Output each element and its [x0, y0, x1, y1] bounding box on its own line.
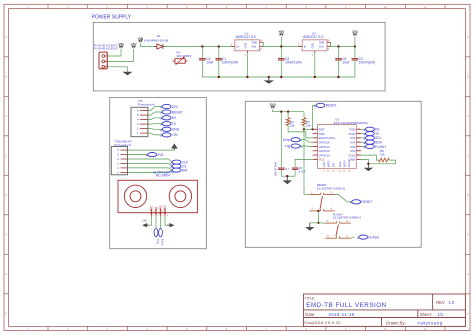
svg-text:1.0: 1.0 — [449, 300, 455, 305]
svg-text:CS0: CS0 — [322, 162, 326, 168]
svg-text:C: C — [5, 114, 7, 118]
wire U1 out rail — [263, 46, 302, 48]
svg-text:Sheet:: Sheet: — [420, 312, 432, 317]
wire S2 pin4 to FLASH flag — [351, 237, 355, 238]
wire U2 out rail — [331, 46, 355, 48]
svg-text:1N4148WS-E3-08: 1N4148WS-E3-08 — [144, 39, 169, 43]
svg-text:10: 10 — [384, 327, 388, 331]
switch S1 RESET — [309, 191, 334, 211]
svg-text:K2-1187SP-C4SB-01: K2-1187SP-C4SB-01 — [317, 187, 346, 191]
svg-text:100nF(104): 100nF(104) — [359, 61, 375, 65]
switch S2 FLASH labels — [333, 213, 362, 220]
junction ground rail x218.8 — [218, 76, 220, 78]
wire IO5 to SCL — [361, 137, 365, 139]
wire HC-SR04 Echo — [160, 217, 162, 229]
svg-text:F: F — [467, 233, 469, 237]
wire TXD to RX — [361, 128, 365, 130]
net flag RESET at S1 — [350, 200, 372, 204]
net flag RX at ESP — [364, 127, 381, 131]
svg-text:4.7uF: 4.7uF — [299, 170, 306, 174]
svg-text:10: 10 — [384, 5, 388, 9]
svg-text:3V3: 3V3 — [352, 30, 358, 34]
svg-text:10k: 10k — [306, 123, 311, 127]
junction 3V3/C7 wire — [280, 111, 282, 113]
svg-text:VIN: VIN — [118, 43, 124, 47]
capacitor C7 — [278, 168, 284, 176]
svg-text:AMS1117-5.0: AMS1117-5.0 — [236, 35, 256, 39]
svg-text:F: F — [5, 233, 7, 237]
wire HC-SR04 GND — [165, 217, 170, 226]
ground at buttons — [305, 223, 315, 231]
junction R3/RST — [303, 128, 305, 130]
svg-text:Echo: Echo — [283, 138, 291, 142]
svg-text:IO9: IO9 — [331, 162, 335, 167]
power flag 3V3 at ESP — [270, 103, 276, 108]
title block Date label — [305, 312, 354, 317]
wire 7SEG pin5 to 3V3 — [128, 154, 148, 156]
wire junction to gnd stem — [310, 222, 319, 224]
wire U1 GND down — [246, 53, 248, 77]
svg-text:Out: Out — [251, 45, 256, 49]
junction ground rail x268.8 — [268, 76, 270, 78]
title block EasyEDA version — [304, 320, 341, 325]
net flag Echo at ESP — [283, 138, 302, 142]
svg-text:nakpisang: nakpisang — [418, 321, 443, 326]
junction at C4 top — [201, 45, 203, 47]
wire HC-SR04 Trig — [155, 217, 157, 229]
svg-text:Echo: Echo — [161, 239, 165, 246]
svg-text:GND: GND — [172, 128, 180, 132]
power flag 3V3 at rail — [352, 30, 358, 35]
resistor R3 — [302, 112, 306, 195]
capacitor C3 — [352, 47, 359, 78]
wire 7SEG pin1 gnd row — [128, 170, 172, 172]
svg-text:IO10: IO10 — [338, 161, 342, 167]
wire +5V stem — [280, 36, 282, 46]
wire D1 to U1 — [163, 46, 235, 48]
wire S1 pin1 to RST net — [304, 194, 309, 196]
svg-text:Drawn By:: Drawn By: — [386, 321, 405, 326]
power flag +5V at P1 — [131, 43, 138, 48]
svg-text:10k: 10k — [290, 123, 295, 127]
svg-text:11: 11 — [424, 5, 427, 9]
net flag GND (TTL) — [161, 127, 180, 131]
title block Sheet label — [420, 312, 444, 317]
junction 3V3/R4 — [287, 111, 289, 113]
wire ESP GND down — [361, 159, 368, 163]
svg-text:PINHEADER2: PINHEADER2 — [94, 47, 118, 51]
svg-text:C: C — [467, 114, 469, 118]
svg-text:G: G — [467, 272, 469, 276]
wire IO15 to R5 — [361, 155, 378, 160]
title block — [304, 294, 466, 326]
junction at +5V/C2 — [280, 45, 282, 47]
ultrasonic module HC-SR04 — [118, 180, 197, 217]
ground at P1 pin3 — [123, 71, 133, 75]
regulator U1 AMS1117-5.0 — [230, 32, 263, 57]
IC U3 ESP-12F — [313, 125, 362, 173]
wire S1 pin3 down — [317, 211, 319, 223]
connectors/ultrasonic section box — [110, 98, 207, 249]
svg-text:30V 180PF: 30V 180PF — [176, 54, 191, 58]
switch S1 RESET labels — [317, 183, 346, 190]
wire S1 pin2 to RESET flag — [335, 195, 352, 202]
svg-text:VCC: VCC — [150, 205, 154, 212]
capacitor C6 labels — [299, 166, 306, 174]
junction ESP gnd — [367, 163, 369, 165]
junction at C5 top — [337, 45, 339, 47]
svg-text:3V3: 3V3 — [172, 105, 178, 109]
diode D1 labels — [144, 34, 169, 43]
wire P1 pin2 to +5V — [107, 49, 133, 62]
power flag VIN at P1 — [118, 43, 124, 48]
wire 3V3 down to C7 — [280, 112, 282, 167]
net flag FLASH at S2 — [357, 235, 379, 239]
capacitor C7 value vertical — [274, 162, 278, 177]
wire TTL pin2 to GND — [148, 128, 162, 131]
svg-text:+5V: +5V — [172, 133, 179, 137]
title block REV label — [436, 300, 455, 305]
svg-text:FLASH: FLASH — [375, 145, 386, 149]
net flag RESET at ESP — [315, 103, 337, 107]
wire 3V3 stem — [354, 36, 356, 46]
power ground rail wire — [202, 76, 355, 78]
svg-text:DIN: DIN — [182, 168, 188, 172]
capacitor C4 labels — [206, 57, 213, 65]
junction ground rail x338.5 — [337, 76, 339, 78]
power flag VIN at rail — [138, 37, 144, 42]
capacitor C6 — [292, 168, 298, 176]
net flag Trig (vertical) — [154, 228, 160, 244]
svg-text:Trig: Trig — [156, 239, 160, 244]
svg-text:Trig: Trig — [285, 144, 291, 148]
svg-text:HC-SR04: HC-SR04 — [156, 174, 170, 178]
ESP8266 section box — [245, 101, 421, 247]
wire Trig to GPIO14 — [300, 145, 312, 148]
junction ground rail x281.3 — [280, 76, 282, 78]
connector J1 TTL labels — [138, 99, 155, 107]
net flag CLK — [171, 160, 189, 164]
svg-text:D: D — [5, 154, 7, 158]
svg-text:TITLE:: TITLE: — [305, 296, 316, 300]
regulator U2 AMS1117-3.3 — [298, 32, 331, 57]
capacitor C1 — [216, 47, 223, 78]
svg-text:3V3: 3V3 — [270, 103, 276, 107]
capacitor C4 — [199, 47, 206, 78]
net flag FLASH at ESP — [364, 144, 386, 148]
svg-text:H: H — [5, 312, 7, 316]
connector P1 labels — [94, 43, 118, 50]
wire P1 pin3 to ground — [107, 67, 127, 71]
resistor R3 labels — [306, 120, 311, 127]
svg-text:H: H — [467, 312, 469, 316]
svg-text:D: D — [467, 154, 469, 158]
net flag +5V (TTL) — [161, 133, 179, 137]
svg-text:MISO: MISO — [327, 161, 331, 168]
svg-text:REV: REV — [436, 300, 445, 305]
svg-text:EasyEDA V5.9.20: EasyEDA V5.9.20 — [304, 320, 341, 325]
varistor RV labels — [176, 51, 191, 58]
junction C7C6 gnd — [286, 175, 288, 177]
svg-text:RX: RX — [172, 116, 177, 120]
svg-text:B: B — [467, 75, 469, 79]
wire U2 GND down — [314, 53, 316, 77]
svg-text:100nF(104): 100nF(104) — [274, 162, 278, 177]
svg-text:E: E — [5, 193, 7, 197]
svg-text:Date:: Date: — [305, 312, 315, 317]
junction buttons gnd — [317, 222, 319, 224]
junction at 3V3/C3 — [354, 45, 356, 47]
diode D1 — [154, 44, 166, 49]
varistor RV — [172, 57, 188, 65]
svg-text:+5V: +5V — [278, 30, 285, 34]
svg-text:D1: D1 — [157, 34, 161, 38]
title block Drawn By — [386, 321, 443, 326]
switch S2 FLASH — [325, 220, 350, 238]
POWER SUPPLY section title — [92, 14, 132, 20]
capacitor C1 labels — [222, 57, 238, 65]
svg-text:Out: Out — [319, 45, 324, 49]
net flag RX (TTL) — [161, 116, 178, 120]
wire TTL pin4 to RX — [148, 118, 162, 120]
wire TTL pin5 to RESET — [148, 112, 162, 115]
capacitor C7 label — [285, 167, 289, 171]
svg-text:+5V: +5V — [131, 43, 138, 47]
connector P1 PINHEADER2 — [99, 52, 108, 69]
svg-text:RESET: RESET — [361, 200, 372, 204]
capacitor C2 — [278, 47, 285, 78]
power arrow +5V at HC-SR04 VCC — [142, 219, 149, 228]
ground at C7C6 — [283, 176, 293, 184]
svg-text:11: 11 — [424, 327, 427, 331]
wire 7SEG to CS — [128, 164, 172, 167]
resistor R5 labels — [380, 149, 385, 156]
junction ground rail x314.8 — [314, 76, 316, 78]
svg-text:MOSI: MOSI — [343, 160, 347, 167]
svg-text:VCC: VCC — [319, 158, 326, 162]
net flag TX (TTL) — [161, 122, 177, 126]
svg-text:In: In — [236, 45, 239, 49]
svg-text:POWER SUPPLY: POWER SUPPLY — [92, 14, 132, 20]
wire 7SEG to CLK — [128, 159, 172, 162]
svg-text:Pinheader6: Pinheader6 — [138, 102, 155, 106]
wire HC-SR04 VCC — [147, 217, 152, 226]
wire RESET flag to RST — [313, 105, 316, 129]
title block title value — [306, 302, 386, 309]
svg-text:G: G — [5, 272, 7, 276]
IC U3 labels — [334, 117, 368, 125]
wire junction to S2 pin1 — [318, 222, 325, 224]
resistor R5 — [379, 158, 390, 162]
capacitor C2 labels — [285, 57, 301, 65]
wire IO0 to FLASH — [361, 146, 365, 148]
capacitor C3 labels — [359, 57, 375, 65]
svg-text:+5V: +5V — [142, 219, 147, 223]
net flag 3V3 (7SEG) — [146, 153, 163, 157]
net flag DIN — [171, 168, 188, 172]
svg-text:3V3: 3V3 — [157, 153, 163, 157]
wire TTL pin1 to +5V — [148, 133, 162, 135]
svg-text:10uF: 10uF — [342, 61, 349, 65]
wire R5 to gnd rail — [368, 160, 395, 164]
ground arrow at HC-SR04 — [167, 223, 174, 227]
wire C7-C6 gnd rail — [281, 175, 295, 177]
wire 7SEG pin6 to +5V arrow — [128, 149, 175, 151]
svg-text:GND: GND — [163, 205, 167, 213]
connector J2 7SEGMENT labels — [114, 140, 132, 147]
power supply section box — [93, 22, 385, 91]
svg-text:GND: GND — [243, 43, 247, 49]
svg-text:10k: 10k — [380, 153, 385, 157]
svg-text:RESET: RESET — [326, 104, 337, 108]
svg-text:SCLK: SCLK — [347, 160, 351, 167]
svg-text:100nF(104): 100nF(104) — [222, 61, 238, 65]
wire Echo to GPIO16 — [300, 140, 312, 143]
net flag SDA at ESP — [364, 140, 383, 144]
svg-text:10uF: 10uF — [206, 61, 213, 65]
svg-text:A: A — [5, 35, 7, 39]
wire IO4 to SDA — [361, 141, 365, 143]
capacitor C5 — [335, 47, 342, 78]
svg-text:100nF(104): 100nF(104) — [285, 61, 301, 65]
svg-text:Echo: Echo — [159, 205, 163, 212]
svg-text:VIN: VIN — [138, 37, 144, 41]
junction RESET/RST — [311, 128, 313, 130]
junction ground rail x247.4 — [246, 76, 248, 78]
svg-text:B: B — [5, 75, 7, 79]
svg-text:C7: C7 — [285, 167, 289, 171]
wire TTL pin3 to TX — [148, 123, 162, 125]
wire VCC to C6 — [295, 159, 313, 167]
net flag Echo (vertical) — [159, 228, 165, 246]
title block TITLE label — [305, 296, 316, 300]
wire VIN to D1 anode — [140, 43, 156, 47]
net flag CS — [171, 164, 188, 168]
net flag SCL at ESP — [364, 136, 382, 140]
resistor R4 — [286, 112, 312, 138]
net flag RESET (TTL) — [161, 110, 183, 114]
connector J1 TTL Pinheader6 — [131, 107, 148, 136]
svg-text:In: In — [304, 45, 307, 49]
power flag +5V at rail — [278, 30, 285, 35]
svg-text:AMS1117-3.3: AMS1117-3.3 — [303, 35, 323, 39]
svg-text:FLASH: FLASH — [368, 235, 379, 239]
junction S1 pin3 — [317, 210, 319, 212]
svg-text:A: A — [467, 35, 469, 39]
svg-text:Trig: Trig — [154, 207, 158, 213]
net flag 3V3 (TTL) — [161, 104, 178, 108]
svg-text:EMD-TB FULL VERSION: EMD-TB FULL VERSION — [306, 302, 386, 309]
resistor R4 labels — [290, 120, 295, 127]
wire 7SEG to DIN — [128, 168, 172, 170]
capacitor C5 labels — [342, 57, 349, 65]
ground at ESP — [364, 164, 374, 171]
svg-text:1/1: 1/1 — [437, 312, 443, 317]
connector J2 7SEGMENT Pinheader6 — [111, 147, 127, 175]
svg-text:ESP-12F(ESP8266MOD): ESP-12F(ESP8266MOD) — [334, 121, 368, 125]
svg-text:2018-11-16: 2018-11-16 — [329, 312, 355, 317]
net flag Trig at ESP — [285, 144, 302, 148]
wire P1 pin1 to VIN — [107, 49, 121, 56]
wire 3V3 to pullups — [273, 109, 304, 112]
junction at C1 top — [218, 45, 220, 47]
net flag TX at ESP — [364, 132, 380, 136]
wire RXD to TX — [361, 133, 365, 135]
wire TTL pin6 to 3V3 — [148, 107, 162, 111]
wire R3 to RST pin — [304, 128, 313, 130]
ultrasonic labels — [153, 170, 175, 177]
svg-text:RESET: RESET — [172, 110, 183, 114]
power arrow at 7SEG pin6 — [171, 144, 178, 151]
svg-text:E: E — [467, 193, 469, 197]
svg-text:GND: GND — [311, 43, 315, 49]
ground at power rail — [264, 77, 275, 84]
